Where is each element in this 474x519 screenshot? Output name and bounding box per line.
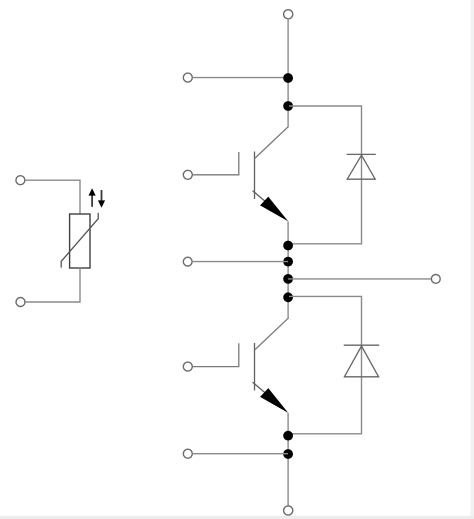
- wire phase output: [288, 278, 431, 280]
- node junction dot5: [283, 274, 293, 284]
- IGBT Q1 collector lead: [255, 127, 289, 159]
- thermistor RT1 body: [70, 214, 90, 268]
- diode D2 cathode bar: [344, 344, 380, 346]
- IGBT Q2 emitter lead: [253, 382, 268, 395]
- IGBT Q2 body bar: [254, 343, 256, 391]
- node junction dot4: [283, 257, 293, 267]
- IGBT Q2 collector lead: [255, 318, 289, 350]
- wire main vertical upper: [287, 19, 289, 128]
- node junction dot3: [283, 241, 293, 251]
- terminal bottom-left aux emitter: [183, 449, 192, 458]
- wire diode branch upper: [289, 106, 362, 244]
- diode D2 triangle: [344, 346, 378, 377]
- IGBT Q1 emitter arrow: [260, 197, 288, 222]
- thermistor RT1 terminal top-left: [16, 176, 25, 185]
- IGBT Q1 gate wire: [192, 152, 238, 175]
- arrow down: [101, 190, 103, 201]
- node junction dot6: [283, 292, 293, 302]
- terminal top (collector C): [284, 10, 293, 19]
- wire: [25, 180, 80, 214]
- page edge bottom: [0, 516, 474, 519]
- wire: [192, 261, 288, 263]
- terminal mid-left aux emitter: [183, 257, 192, 266]
- wire: [192, 453, 288, 455]
- IGBT Q2 emitter arrow: [260, 388, 288, 413]
- node junction dot8: [283, 449, 293, 459]
- wire: [192, 77, 288, 79]
- IGBT Q1 body bar: [254, 152, 256, 200]
- wire main vertical middle: [287, 221, 289, 319]
- node junction dot1: [283, 73, 293, 83]
- wire diode branch lower: [289, 296, 362, 433]
- thermistor RT1 diagonal stroke: [61, 213, 98, 268]
- IGBT Q2 gate wire: [192, 343, 238, 366]
- arrow up: [91, 194, 93, 207]
- IGBT Q1 emitter lead: [253, 191, 268, 204]
- diode D1 cathode bar: [347, 153, 376, 155]
- wire main vertical lower: [287, 413, 289, 506]
- diode D1 triangle: [347, 155, 375, 179]
- node junction dot7: [283, 431, 293, 441]
- page edge right: [471, 0, 474, 519]
- terminal upper-left aux collector: [183, 73, 192, 82]
- thermistor RT1 terminal bottom-left: [16, 298, 25, 307]
- terminal right phase: [431, 275, 440, 284]
- terminal bottom (emitter E): [284, 506, 293, 515]
- wire: [25, 268, 80, 302]
- node junction dot2: [283, 101, 293, 111]
- IGBT Q2 gate terminal: [183, 362, 192, 371]
- IGBT Q1 gate terminal: [183, 170, 192, 179]
